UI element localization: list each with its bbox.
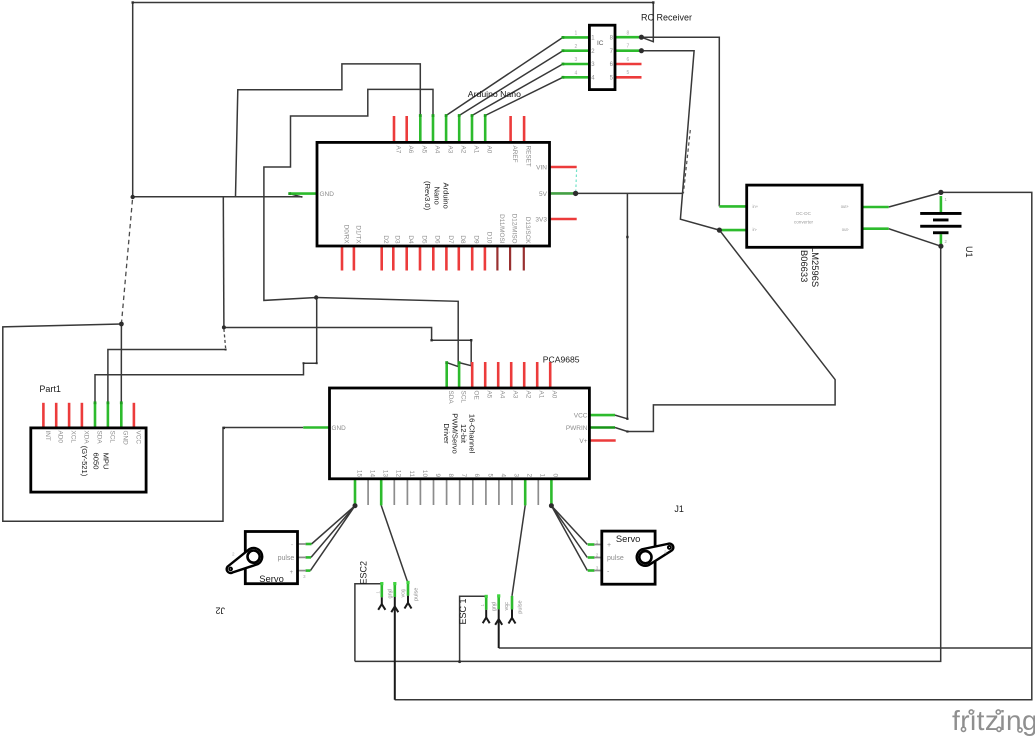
svg-text:3: 3 — [402, 589, 407, 592]
svg-text:2: 2 — [575, 44, 578, 50]
svg-text:RC Receiver: RC Receiver — [641, 13, 692, 23]
svg-text:5: 5 — [486, 473, 493, 477]
svg-text:VIN: VIN — [536, 165, 547, 172]
svg-text:2: 2 — [232, 552, 235, 557]
svg-text:3: 3 — [512, 473, 519, 477]
svg-text:15: 15 — [355, 470, 362, 478]
svg-text:0: 0 — [552, 473, 559, 477]
svg-text:Servo: Servo — [259, 573, 284, 584]
svg-text:2: 2 — [664, 550, 667, 555]
svg-text:-: - — [291, 543, 293, 549]
svg-text:LM2596S: LM2596S — [810, 247, 821, 287]
svg-text:3: 3 — [575, 57, 578, 63]
svg-text:3V3: 3V3 — [535, 217, 547, 224]
svg-text:+: + — [607, 542, 611, 549]
svg-text:D10: D10 — [485, 232, 492, 244]
svg-text:13: 13 — [382, 470, 389, 478]
svg-text:J1: J1 — [674, 504, 684, 514]
svg-text:A5: A5 — [486, 391, 493, 399]
svg-text:DC-DC: DC-DC — [796, 211, 811, 216]
svg-text:A5: A5 — [421, 146, 428, 154]
svg-text:6: 6 — [473, 473, 480, 477]
svg-text:XDA: XDA — [82, 431, 89, 445]
svg-text:AREF: AREF — [511, 146, 518, 163]
svg-text:1: 1 — [596, 540, 599, 545]
svg-text:A3: A3 — [512, 391, 519, 399]
svg-text:2: 2 — [596, 553, 599, 558]
svg-text:out-: out- — [842, 227, 850, 232]
svg-text:8: 8 — [627, 30, 630, 36]
svg-text:Driver: Driver — [442, 423, 451, 444]
svg-text:pulse: pulse — [414, 588, 420, 601]
svg-text:Part1: Part1 — [39, 384, 61, 394]
svg-text:XCL: XCL — [70, 431, 77, 444]
svg-text:3: 3 — [596, 566, 599, 571]
svg-text:RESET: RESET — [525, 146, 532, 167]
svg-text:U1: U1 — [964, 246, 974, 258]
svg-text:7: 7 — [460, 473, 467, 477]
svg-text:MPU: MPU — [101, 453, 110, 470]
svg-text:J2: J2 — [215, 606, 225, 616]
svg-text:Servo: Servo — [616, 533, 641, 544]
svg-text:IC: IC — [597, 40, 604, 47]
svg-text:A1: A1 — [472, 146, 479, 154]
svg-text:(GY-521): (GY-521) — [80, 446, 89, 477]
svg-text:2: 2 — [492, 603, 497, 606]
svg-text:D0/RX: D0/RX — [342, 225, 349, 245]
svg-text:B06633: B06633 — [799, 250, 810, 282]
svg-text:INT: INT — [44, 431, 51, 441]
svg-text:2: 2 — [526, 473, 533, 477]
svg-text:14: 14 — [369, 470, 376, 478]
svg-text:3: 3 — [303, 574, 306, 579]
svg-text:5V: 5V — [539, 191, 548, 198]
svg-text:4: 4 — [575, 70, 578, 76]
svg-text:D4: D4 — [407, 235, 414, 244]
svg-text:VCC: VCC — [574, 412, 588, 419]
svg-text:10: 10 — [421, 470, 428, 478]
svg-text:pulse: pulse — [607, 555, 624, 562]
svg-text:3: 3 — [506, 603, 511, 606]
svg-text:2: 2 — [389, 590, 394, 593]
svg-text:A3: A3 — [447, 146, 454, 154]
svg-text:D11/MOSI: D11/MOSI — [498, 214, 505, 244]
svg-text:D13/SCK: D13/SCK — [524, 217, 531, 244]
svg-text:A4: A4 — [433, 146, 440, 154]
svg-text:SCL: SCL — [460, 391, 467, 404]
svg-text:1: 1 — [539, 473, 546, 477]
svg-text:1: 1 — [480, 604, 485, 607]
svg-text:7: 7 — [627, 44, 630, 50]
svg-text:D2: D2 — [382, 235, 389, 244]
svg-text:11: 11 — [408, 470, 415, 477]
svg-text:A2: A2 — [525, 391, 532, 399]
svg-text:PCA9685: PCA9685 — [543, 355, 580, 365]
svg-text:out+: out+ — [841, 204, 850, 209]
svg-text:D1/TX: D1/TX — [354, 225, 361, 244]
svg-text:4: 4 — [499, 473, 506, 477]
svg-text:D7: D7 — [447, 235, 454, 244]
svg-text:OE: OE — [473, 391, 480, 400]
svg-text:A0: A0 — [551, 391, 558, 399]
svg-text:SDA: SDA — [95, 431, 102, 445]
svg-text:D5: D5 — [420, 235, 427, 244]
svg-text:VCC: VCC — [134, 431, 141, 445]
svg-text:converter: converter — [794, 220, 814, 225]
svg-text:A0: A0 — [486, 146, 493, 154]
svg-text:A4: A4 — [499, 391, 506, 399]
svg-text:12: 12 — [395, 470, 402, 478]
svg-text:D12/MISO: D12/MISO — [511, 214, 518, 244]
svg-text:5: 5 — [627, 70, 630, 76]
svg-text:1: 1 — [575, 31, 578, 37]
svg-text:Arduino: Arduino — [442, 183, 451, 209]
svg-text:pulse: pulse — [278, 555, 295, 562]
svg-text:SDA: SDA — [447, 391, 454, 405]
svg-text:Nano: Nano — [432, 187, 441, 205]
svg-text:GND: GND — [332, 425, 347, 432]
svg-text:in-: in- — [753, 227, 758, 232]
svg-text:A1: A1 — [538, 391, 545, 399]
svg-text:AD0: AD0 — [57, 431, 64, 444]
svg-text:V+: V+ — [579, 438, 587, 445]
svg-text:A2: A2 — [460, 146, 467, 154]
svg-text:SCL: SCL — [108, 431, 115, 444]
svg-text:ESC2: ESC2 — [358, 561, 368, 585]
svg-text:A6: A6 — [407, 146, 414, 154]
svg-text:D6: D6 — [434, 235, 441, 244]
svg-text:(Rev3.0): (Rev3.0) — [423, 181, 432, 211]
svg-text:pulse: pulse — [518, 600, 524, 613]
svg-text:A7: A7 — [394, 146, 401, 154]
svg-text:PWRIN: PWRIN — [566, 425, 588, 432]
svg-text:1: 1 — [376, 591, 381, 594]
svg-text:D3: D3 — [394, 235, 401, 244]
svg-text:ESC 1: ESC 1 — [458, 598, 468, 624]
svg-text:6050: 6050 — [92, 453, 101, 470]
svg-text:D9: D9 — [473, 235, 480, 244]
svg-text:GND: GND — [320, 191, 335, 198]
svg-text:Arduino Nano: Arduino Nano — [468, 89, 521, 99]
svg-text:D8: D8 — [459, 235, 466, 244]
svg-text:+: + — [290, 570, 294, 576]
svg-text:in+: in+ — [753, 204, 759, 209]
svg-text:8: 8 — [447, 473, 454, 477]
svg-text:9: 9 — [434, 473, 441, 477]
svg-text:6: 6 — [627, 57, 630, 63]
svg-text:GND: GND — [122, 431, 129, 446]
